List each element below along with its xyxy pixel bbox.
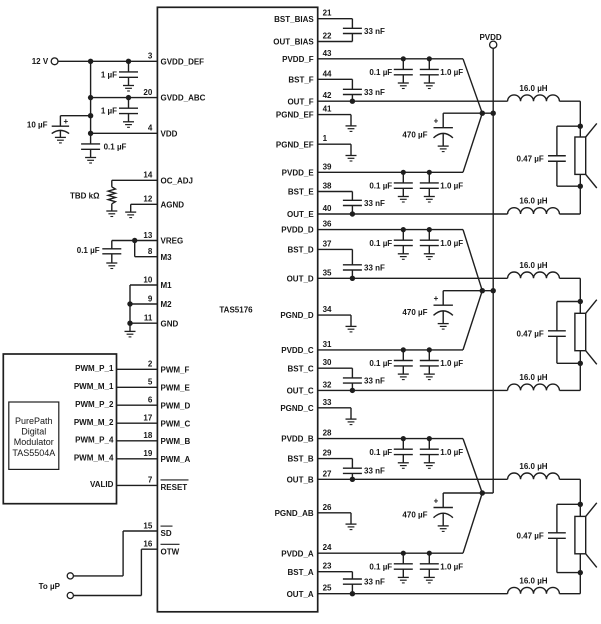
svg-text:1.0 µF: 1.0 µF (440, 68, 463, 77)
svg-text:PWM_B: PWM_B (161, 437, 191, 446)
svg-text:GVDD_DEF: GVDD_DEF (161, 57, 205, 66)
wire 470uF line AB (443, 492, 493, 494)
ground ground of C 1.0 uF (PVDD_B) (424, 463, 435, 469)
capacitor C 1.0 uF (PVDD_A) (420, 551, 439, 578)
wire BST_E pin 38 stub (318, 191, 353, 193)
wire OUT_C pin 32 (318, 389, 508, 391)
wire OTW pin 16 stub (141, 548, 157, 550)
wire PGND_EF down (350, 144, 352, 155)
wire resistor to ground (111, 204, 113, 211)
svg-text:11: 11 (144, 314, 153, 323)
svg-text:30: 30 (323, 358, 332, 367)
capacitor C 1 uF (GVDD_DEF) (119, 61, 138, 85)
svg-text:PWM_F: PWM_F (161, 365, 190, 374)
wire PVDD_C pin 31 (318, 349, 463, 351)
overline of SD (161, 525, 173, 527)
capacitor C 470 uF (AB) (434, 493, 453, 526)
junction speaker bottom junction FE (578, 184, 583, 189)
svg-text:4: 4 (148, 124, 153, 133)
svg-text:BST_B: BST_B (287, 455, 313, 464)
svg-text:16.0 µH: 16.0 µH (519, 197, 547, 206)
svg-text:12: 12 (143, 195, 152, 204)
wire rail up from OUT bottom DC (579, 363, 581, 390)
svg-text:PGND_AB: PGND_AB (275, 509, 314, 518)
wire rail up from OUT bottom FE (579, 186, 581, 214)
wire OUT_C after inductor (559, 389, 580, 391)
junction speaker top junction FE (578, 124, 583, 129)
wire PVDD_F pin 43 (318, 58, 463, 60)
capacitor C 33 nF (BST_C) (343, 368, 362, 390)
block inner box (9, 402, 59, 469)
ground ground of C 470 uF (AB) (438, 526, 449, 532)
svg-text:33 nF: 33 nF (364, 467, 385, 476)
svg-text:PGND_C: PGND_C (280, 404, 314, 413)
svg-text:470 µF: 470 µF (402, 131, 427, 140)
wire PWM_P_4 to PWM_B (117, 440, 158, 442)
junction OUT_E 33nF tap (350, 211, 355, 216)
svg-text:15: 15 (143, 521, 152, 530)
svg-text:0.1 µF: 0.1 µF (369, 359, 392, 368)
inductor L (OUT_D) 16.0 uH (508, 272, 560, 278)
wire PWM_M_2 to PWM_C (117, 422, 158, 424)
wire PWM_P_2 to PWM_D (117, 404, 158, 406)
junction PVDD rail junction EF (491, 111, 496, 116)
overline of RESET (161, 479, 189, 481)
svg-text:1.0 µF: 1.0 µF (440, 448, 463, 457)
junction PVDD junction EF (480, 111, 485, 116)
ground ground of C 0.1 uF (PVDD_C) (398, 374, 409, 380)
svg-text:+: + (434, 294, 439, 303)
svg-text:32: 32 (323, 380, 332, 389)
svg-text:VDD: VDD (161, 129, 178, 138)
svg-text:0.1 µF: 0.1 µF (77, 246, 100, 255)
junction OUT_A 33nF tap (350, 591, 355, 596)
svg-text:BST_D: BST_D (287, 246, 313, 255)
terminal 12 V input (51, 58, 58, 65)
capacitor C 0.47 uF (FE) (548, 126, 566, 186)
wire OUT_F after inductor (559, 100, 580, 102)
ground ground PGND_EF (346, 126, 357, 131)
junction 10uF tap (88, 113, 93, 118)
wire GND pin 11 (130, 322, 157, 324)
svg-text:PGND_EF: PGND_EF (276, 140, 314, 149)
svg-text:17: 17 (143, 414, 152, 423)
junction GND junction (127, 321, 132, 326)
ground ground PGND_D (346, 326, 357, 332)
capacitor C 0.1 uF (PVDD_B) (394, 436, 413, 463)
wire OUT_D pin 35 (318, 277, 508, 279)
capacitor C 10 uF (52, 116, 69, 138)
svg-text:33: 33 (323, 398, 332, 407)
ground ground of C 0.1 uF (PVDD_B) (398, 463, 409, 469)
wire PVDD rail vertical (492, 48, 494, 493)
wire AGND down (130, 204, 132, 212)
wire OTW to terminal (73, 595, 141, 597)
wire OTW vertical (140, 549, 142, 595)
svg-text:M3: M3 (161, 253, 173, 262)
resistor R TBD kOhm (108, 187, 115, 204)
wire PVDD_A diagonal to PVDD junction (463, 493, 482, 553)
svg-text:PVDD: PVDD (479, 33, 501, 42)
ground ground of VREG cap (106, 263, 117, 269)
ground ground AGND (125, 212, 136, 218)
capacitor C 1.0 uF (PVDD_D) (420, 227, 439, 254)
wire OUT_F pin 42 (318, 100, 508, 102)
svg-text:M2: M2 (161, 300, 173, 309)
junction 12V bus (88, 59, 93, 64)
junction abc bus (88, 95, 93, 100)
wire rail down from OUT top BA (579, 479, 581, 504)
terminal OTW terminal (67, 592, 73, 598)
svg-text:OUT_D: OUT_D (287, 274, 314, 283)
wire PGND_D pin 34 stub (318, 314, 351, 316)
junction OUT_F 33nF tap (350, 99, 355, 104)
wire bus to VDD pin 4 (91, 132, 158, 134)
junction vdd bus (88, 131, 93, 136)
svg-text:24: 24 (323, 543, 332, 552)
capacitor C 0.47 uF (DC) (548, 302, 566, 364)
svg-text:+: + (434, 496, 439, 505)
svg-text:BST_C: BST_C (287, 364, 313, 373)
svg-text:0.1 µF: 0.1 µF (369, 68, 392, 77)
svg-text:8: 8 (148, 247, 153, 256)
wire bus to GVDD_ABC pin 20 (91, 97, 158, 99)
svg-text:35: 35 (323, 268, 332, 277)
capacitor C 0.1 uF (VREG) (102, 241, 121, 264)
junction OUT_C 33nF tap (350, 388, 355, 393)
terminal PVDD terminal (490, 41, 497, 48)
capacitor C 470 uF (CD) (434, 291, 453, 324)
wire AGND pin 12 (131, 203, 158, 205)
junction speaker top junction BA (578, 502, 583, 507)
svg-text:10: 10 (143, 275, 152, 284)
ground ground of R TBD (106, 211, 117, 217)
junction 12V cap1 (126, 59, 131, 64)
svg-text:0.47 µF: 0.47 µF (517, 154, 544, 163)
speaker load (DC) (575, 300, 597, 365)
svg-text:0.47 µF: 0.47 µF (517, 532, 544, 541)
wire PGND_AB pin 26 stub (318, 512, 351, 514)
capacitor C 1.0 uF (PVDD_B) (420, 436, 439, 463)
capacitor C 33 nF (BST_E) (343, 192, 362, 215)
svg-text:PVDD_D: PVDD_D (281, 226, 314, 235)
svg-text:PVDD_B: PVDD_B (281, 435, 314, 444)
wire PVDD_A pin 24 (318, 552, 463, 554)
junction speaker bottom junction DC (578, 361, 583, 366)
svg-text:GVDD_ABC: GVDD_ABC (161, 94, 206, 103)
wire OUT_A pin 25 (318, 593, 508, 595)
svg-text:PVDD_C: PVDD_C (281, 346, 314, 355)
ground ground of GND pin (125, 331, 136, 337)
svg-text:33 nF: 33 nF (364, 88, 385, 97)
svg-text:23: 23 (323, 562, 332, 571)
svg-text:19: 19 (143, 449, 152, 458)
svg-text:14: 14 (143, 171, 152, 180)
svg-text:21: 21 (323, 9, 332, 18)
svg-text:PWM_D: PWM_D (161, 401, 191, 410)
svg-text:20: 20 (143, 88, 152, 97)
svg-text:10 µF: 10 µF (27, 120, 48, 129)
svg-text:PWM_P_2: PWM_P_2 (75, 400, 114, 409)
svg-text:16: 16 (143, 540, 152, 549)
svg-text:18: 18 (143, 431, 152, 440)
svg-text:OUT_A: OUT_A (287, 590, 314, 599)
svg-text:5: 5 (148, 378, 153, 387)
svg-text:1: 1 (323, 134, 328, 143)
wire BST_F pin 44 stub (318, 78, 353, 80)
wire BST_D pin 37 stub (318, 248, 353, 250)
svg-text:1.0 µF: 1.0 µF (440, 182, 463, 191)
junction M2 junction (127, 301, 132, 306)
svg-text:0.1 µF: 0.1 µF (369, 448, 392, 457)
svg-text:7: 7 (148, 476, 153, 485)
inductor L (OUT_E) 16.0 uH (508, 208, 560, 214)
svg-text:PVDD_A: PVDD_A (281, 549, 314, 558)
wire rail down from OUT top FE (579, 101, 581, 126)
ground ground PGND_AB (346, 524, 357, 530)
svg-text:0.1 µF: 0.1 µF (369, 562, 392, 571)
wire OUT_A after inductor (559, 593, 580, 595)
svg-text:Modulator: Modulator (14, 437, 54, 447)
svg-text:OUT_F: OUT_F (287, 97, 313, 106)
junction OUT_D 33nF tap (350, 276, 355, 281)
svg-text:40: 40 (323, 204, 332, 213)
ground ground of C 0.1 uF (PVDD_E) (398, 197, 409, 203)
wire SD vertical (122, 531, 124, 576)
wire PGND_EF pin 1 stub (318, 143, 351, 145)
svg-text:BST_A: BST_A (287, 568, 313, 577)
capacitor C 1.0 uF (PVDD_E) (420, 170, 439, 197)
svg-text:AGND: AGND (161, 200, 185, 209)
wire OUT_B after inductor (559, 478, 580, 480)
svg-text:OTW: OTW (161, 547, 180, 556)
svg-text:16.0 µH: 16.0 µH (519, 576, 547, 585)
wire PGND_AB down (350, 513, 352, 524)
ground ground PGND_C (346, 419, 357, 425)
wire PGND_C down (350, 408, 352, 419)
capacitor C 33 nF (BST_D) (343, 249, 362, 278)
wire PVDD_B pin 28 (318, 438, 463, 440)
svg-text:PVDD_E: PVDD_E (282, 168, 315, 177)
junction abc cap (126, 95, 131, 100)
capacitor C 470 uF (EF) (434, 113, 453, 146)
svg-text:0.1 µF: 0.1 µF (369, 182, 392, 191)
wire PGND_C pin 33 stub (318, 407, 351, 409)
wire BST_A pin 23 stub (318, 571, 353, 573)
capacitor C 0.47 uF (BA) (548, 504, 566, 572)
svg-text:GND: GND (161, 319, 179, 328)
junction speaker top junction DC (578, 299, 583, 304)
svg-text:OUT_E: OUT_E (287, 210, 314, 219)
ground ground of C 1.0 uF (PVDD_F) (424, 83, 435, 89)
svg-text:OUT_C: OUT_C (287, 387, 314, 396)
wire SD pin 15 stub (123, 530, 157, 532)
speaker load (BA) (575, 503, 597, 573)
wire PVDD_F diagonal to PVDD junction (463, 59, 482, 113)
overline of OTW (161, 543, 180, 545)
wire 0.47uF bottom branch DC (557, 362, 580, 364)
svg-text:OC_ADJ: OC_ADJ (161, 176, 193, 185)
wire SD to terminal (73, 575, 123, 577)
ground ground of C 0.1 uF (VDD) (85, 158, 96, 164)
wire 0.47uF bottom branch FE (557, 185, 580, 187)
svg-text:BST_F: BST_F (288, 75, 313, 84)
svg-text:2: 2 (148, 360, 153, 369)
svg-text:42: 42 (323, 91, 332, 100)
svg-text:OUT_B: OUT_B (287, 475, 314, 484)
junction PVDD rail junction CD (491, 288, 496, 293)
wire BST_C pin 30 stub (318, 367, 353, 369)
svg-text:BST_BIAS: BST_BIAS (274, 15, 314, 24)
svg-text:27: 27 (323, 469, 332, 478)
wire OUT_BIAS pin 22 stub (318, 41, 353, 43)
svg-text:To µP: To µP (39, 582, 61, 591)
svg-text:VALID: VALID (90, 480, 114, 489)
wire M1-M2-GND vertical (129, 285, 131, 323)
svg-text:3: 3 (148, 52, 153, 61)
svg-text:470 µF: 470 µF (402, 308, 427, 317)
ground ground of C 470 uF (CD) (438, 324, 449, 330)
ground ground of C 1.0 uF (PVDD_C) (424, 374, 435, 380)
wire VALID to RESET pin 7 (117, 484, 158, 486)
junction VREG tap (132, 238, 137, 243)
svg-text:43: 43 (323, 49, 332, 58)
svg-text:33 nF: 33 nF (364, 263, 385, 272)
svg-text:PGND_D: PGND_D (280, 311, 314, 320)
svg-text:1.0 µF: 1.0 µF (440, 359, 463, 368)
wire M2 pin 9 (130, 303, 157, 305)
svg-text:VREG: VREG (161, 237, 184, 246)
ground ground of C 1.0 uF (PVDD_E) (424, 197, 435, 203)
svg-text:0.1 µF: 0.1 µF (104, 143, 127, 152)
wire VREG to M3 vertical (134, 241, 136, 257)
svg-text:TAS5504A: TAS5504A (12, 448, 55, 458)
svg-text:M1: M1 (161, 281, 173, 290)
svg-text:25: 25 (323, 584, 332, 593)
capacitor C 0.1 uF (PVDD_C) (394, 347, 413, 374)
svg-text:16.0 µH: 16.0 µH (519, 261, 547, 270)
wire 470uF line CD (443, 290, 493, 292)
svg-text:PWM_P_4: PWM_P_4 (75, 435, 114, 444)
ground ground of C 1.0 uF (PVDD_D) (424, 254, 435, 259)
svg-text:Digital: Digital (21, 427, 46, 437)
capacitor C 0.1 uF (PVDD_A) (394, 551, 413, 578)
svg-text:+: + (63, 117, 68, 126)
svg-text:16.0 µH: 16.0 µH (519, 373, 547, 382)
ground ground of C 0.1 uF (PVDD_D) (398, 254, 409, 259)
wire VREG pin 13 (112, 240, 158, 242)
ground ground of C 470 uF (EF) (438, 146, 449, 152)
inductor L (OUT_B) 16.0 uH (508, 473, 560, 479)
capacitor C 1.0 uF (PVDD_C) (420, 347, 439, 374)
wire BST_BIAS pin 21 stub (318, 18, 353, 20)
ground ground of C 1.0 uF (PVDD_A) (424, 577, 435, 583)
wire PVDD_E pin 39 (318, 171, 463, 173)
svg-text:12 V: 12 V (32, 57, 49, 66)
junction OUT_B 33nF tap (350, 477, 355, 482)
svg-text:1 µF: 1 µF (101, 70, 117, 79)
svg-text:31: 31 (323, 340, 332, 349)
svg-text:16.0 µH: 16.0 µH (519, 84, 547, 93)
svg-text:38: 38 (323, 182, 332, 191)
wire 0.47uF top branch DC (557, 301, 580, 303)
svg-text:TBD kΩ: TBD kΩ (70, 191, 100, 200)
wire PWM_P_1 to PWM_F (117, 368, 158, 370)
wire M3 pin 8 (135, 256, 158, 258)
wire PVDD_B diagonal to PVDD junction (463, 439, 482, 493)
junction PVDD junction CD (480, 288, 485, 293)
capacitor C 1.0 uF (PVDD_F) (420, 56, 439, 83)
wire OUT_D after inductor (559, 277, 580, 279)
svg-text:26: 26 (323, 503, 332, 512)
junction speaker bottom junction BA (578, 570, 583, 575)
wire BST_B pin 29 stub (318, 458, 353, 460)
svg-text:PVDD_F: PVDD_F (282, 55, 314, 64)
svg-text:33 nF: 33 nF (364, 199, 385, 208)
wire OUT_E pin 40 (318, 213, 508, 215)
svg-text:22: 22 (323, 32, 332, 41)
svg-text:1.0 µF: 1.0 µF (440, 562, 463, 571)
wire 0.47uF top branch BA (557, 503, 580, 505)
wire OC_ADJ down (111, 180, 113, 187)
svg-text:0.1 µF: 0.1 µF (369, 239, 392, 248)
wire PVDD_D diagonal to PVDD junction (463, 230, 482, 291)
svg-text:PWM_E: PWM_E (161, 383, 191, 392)
svg-text:1.0 µF: 1.0 µF (440, 239, 463, 248)
wire PWM_M_4 to PWM_A (117, 458, 158, 460)
ground ground of C 0.1 uF (PVDD_A) (398, 577, 409, 583)
capacitor C 33 nF (BST_A) (343, 572, 362, 594)
capacitor C 0.1 uF (PVDD_D) (394, 227, 413, 254)
wire PVDD_D pin 36 (318, 229, 463, 231)
svg-text:29: 29 (323, 449, 332, 458)
capacitor C 33 nF (BST_B) (343, 459, 362, 480)
wire PWM_M_1 to PWM_E (117, 386, 158, 388)
capacitor C 33 nF (BST_F) (343, 79, 362, 101)
wire PGND_D down (350, 315, 352, 326)
wire 12V to GVDD_DEF pin 3 (58, 60, 157, 62)
svg-text:BST_E: BST_E (288, 188, 314, 197)
ground ground of C 10 uF (55, 137, 66, 143)
wire PGND_EF pin 41 stub (318, 114, 351, 116)
ground ground of C 0.1 uF (PVDD_F) (398, 83, 409, 89)
svg-text:TAS5176: TAS5176 (219, 305, 253, 314)
svg-text:+: + (434, 117, 439, 126)
ground ground of C 1 uF (GVDD_DEF) (123, 86, 134, 92)
wire M1 pin 10 (130, 284, 157, 286)
capacitor C 0.1 uF (VDD) (81, 133, 100, 157)
junction PVDD junction AB (480, 490, 485, 495)
inductor L (OUT_C) 16.0 uH (508, 384, 560, 390)
ground ground PGND_EF (346, 156, 357, 162)
svg-text:PWM_P_1: PWM_P_1 (75, 364, 114, 373)
svg-text:PWM_M_2: PWM_M_2 (74, 418, 114, 427)
svg-text:1 µF: 1 µF (101, 107, 117, 116)
svg-text:PGND_EF: PGND_EF (276, 111, 314, 120)
svg-text:PurePath: PurePath (15, 416, 53, 426)
svg-text:16.0 µH: 16.0 µH (519, 462, 547, 471)
svg-text:PWM_M_4: PWM_M_4 (74, 453, 114, 462)
capacitor C 0.1 uF (PVDD_F) (394, 56, 413, 83)
wire PVDD_E diagonal to PVDD junction (463, 113, 482, 172)
inductor L (OUT_A) 16.0 uH (508, 587, 560, 593)
wire PGND_EF down (350, 115, 352, 126)
wire rail down from OUT top DC (579, 278, 581, 301)
svg-text:33 nF: 33 nF (364, 27, 385, 36)
svg-text:34: 34 (323, 305, 332, 314)
svg-text:28: 28 (323, 429, 332, 438)
svg-text:RESET: RESET (161, 483, 188, 492)
